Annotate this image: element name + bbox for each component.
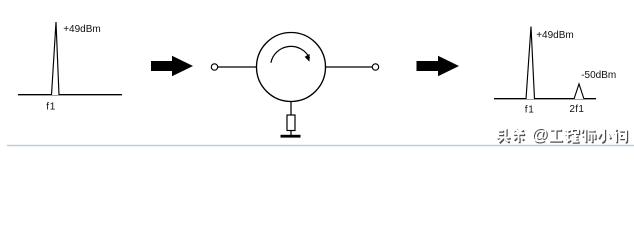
svg-text:+49dBm: +49dBm [536, 30, 574, 41]
svg-text:+49dBm: +49dBm [63, 24, 101, 35]
svg-text:2f1: 2f1 [569, 104, 584, 115]
svg-text:f1: f1 [525, 104, 535, 115]
svg-text:f1: f1 [46, 102, 56, 113]
svg-text:@: @ [531, 126, 548, 144]
svg-text:-50dBm: -50dBm [581, 70, 616, 81]
